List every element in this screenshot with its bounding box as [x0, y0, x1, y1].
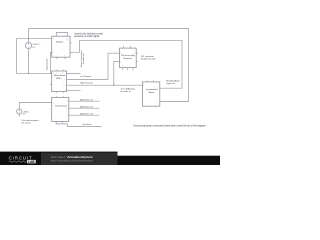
wire audio top pin stubs: [57, 69, 63, 71]
svg-text:2: 2: [120, 61, 121, 63]
svg-text:7: 7: [53, 38, 54, 40]
op-amp U4 : 1/8 stereo plug breakout box: [120, 48, 137, 68]
svg-text:Relais Board: Relais Board: [55, 106, 66, 108]
svg-text:2: 2: [56, 56, 57, 58]
node junction right channel tap: [113, 84, 115, 86]
svg-text:Board: Board: [149, 92, 154, 94]
svg-text:1: 1: [143, 85, 144, 87]
op-amp U1 : Arduino box: [52, 36, 70, 57]
svg-text:to audio out: to audio out: [82, 53, 85, 64]
svg-text:Ground and power connections h: Ground and power connections have been m…: [133, 124, 205, 127]
svg-text:3: 3: [66, 101, 67, 103]
voltage source V2 (+5 servo power): [17, 109, 22, 114]
svg-text:Right Channel: Right Channel: [80, 81, 93, 84]
wire audio left pin stub: [50, 84, 52, 86]
svg-text:4: 4: [157, 101, 158, 103]
svg-text:http://circuitlab.com/c/screen: http://circuitlab.com/c/screenshot: [51, 158, 93, 162]
wire left loop: [17, 39, 52, 74]
svg-text:Breakout: Breakout: [124, 57, 133, 60]
svg-text:Add'l Servo #3: Add'l Servo #3: [80, 112, 94, 115]
wire left channel: [67, 53, 120, 79]
svg-text:Arduino: Arduino: [56, 40, 64, 43]
svg-text:9: 9: [67, 40, 68, 42]
svg-text:3: 3: [122, 66, 123, 68]
footer circuitlab logo LAB plate: [27, 160, 36, 164]
wire servo 3: [69, 114, 100, 116]
svg-text:Left Channel: Left Channel: [80, 75, 92, 78]
op-amp U3 : Relais Board box: [52, 97, 69, 121]
svg-text:5: 5: [53, 52, 54, 54]
op-amp U2 : Audio Board box: [52, 71, 67, 92]
svg-text:1: 1: [53, 102, 54, 104]
svg-text:Used by the Arduino to read: Used by the Arduino to read: [74, 32, 103, 35]
svg-text:Serial Conn: Serial Conn: [45, 58, 48, 70]
wire audio stub lower: [67, 89, 81, 91]
svg-text:Add'l Servo #1: Add'l Servo #1: [80, 98, 94, 101]
wire arduino top jumper: [56, 32, 67, 36]
svg-text:1/8" connector: 1/8" connector: [141, 55, 154, 58]
wire servo 2: [69, 107, 100, 109]
wire plug bottom pin stubs: [123, 68, 134, 71]
wire plug right pin stubs: [136, 53, 138, 61]
wire relay top pin stubs: [57, 96, 63, 97]
wire amp top pin stubs: [147, 80, 153, 82]
svg-text:4: 4: [66, 108, 67, 110]
svg-text:5: 5: [66, 115, 67, 117]
wire V2 bottom stub: [18, 114, 20, 116]
svg-text:8: 8: [64, 85, 65, 87]
svg-text:presence of audio signal: presence of audio signal: [74, 35, 99, 38]
svg-text:7: 7: [55, 120, 56, 122]
wire relay bottom pin stub: [62, 121, 64, 123]
wire arduino right pin stub: [70, 42, 72, 44]
wire arduino bottom pin stubs: [57, 57, 65, 59]
wire audio stub upper: [67, 73, 81, 75]
svg-text:for audio in: for audio in: [121, 91, 131, 93]
svg-text:Jaw Servo: Jaw Servo: [82, 124, 92, 126]
footer circuitlab logo sine: [9, 161, 27, 163]
svg-text:signal out: signal out: [166, 82, 175, 85]
wire right channel riser: [114, 62, 120, 86]
voltage source V1 (audio sense): [25, 42, 31, 48]
svg-text:+5VDC ?: +5VDC ?: [32, 44, 40, 46]
svg-text:3: 3: [64, 56, 65, 58]
wire jaw servo: [56, 121, 101, 126]
wire servo 1: [69, 100, 100, 102]
wire rail R2 arduino to amp: [70, 40, 182, 88]
footer watermark left tab: [0, 152, 118, 165]
wire plug top pin stubs: [123, 46, 130, 48]
node junction V1 audio wire: [28, 73, 30, 75]
wire rail R1 outer loop: [29, 29, 189, 102]
svg-text:7: 7: [64, 79, 65, 81]
svg-text:Add'l Servo #2: Add'l Servo #2: [80, 105, 94, 108]
wire audio bottom pin stubs: [57, 92, 63, 94]
wire right channel to amplifier: [67, 84, 143, 86]
svg-text:the servos: the servos: [22, 121, 31, 124]
op-amp U5 : Loudspeaker board box: [142, 82, 159, 106]
wire V1 to audio board: [28, 49, 30, 74]
wire V1 riser top: [28, 29, 30, 43]
svg-text:MP3's: MP3's: [56, 78, 62, 80]
footer watermark full strip: [0, 156, 220, 165]
svg-text:1/8 stereo plug: 1/8 stereo plug: [121, 54, 136, 57]
svg-text:Loudspeaker: Loudspeaker: [146, 89, 158, 91]
svg-text:LAB: LAB: [28, 160, 35, 164]
footer credit panel: [41, 153, 118, 165]
wire +5 to relay board: [19, 102, 51, 108]
wire serial connection: [51, 52, 52, 73]
svg-text:Audio Board: Audio Board: [54, 74, 65, 77]
node junction serial tap: [50, 73, 51, 74]
svg-text:(header) to amp: (header) to amp: [141, 58, 156, 61]
node junction V1 left wire: [28, 38, 30, 40]
svg-text:Amplifier/Audio: Amplifier/Audio: [166, 79, 180, 82]
